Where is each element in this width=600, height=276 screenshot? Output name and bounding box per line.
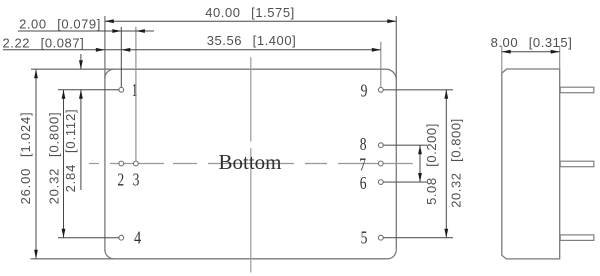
dimension 2.22 text	[3, 35, 85, 50]
svg-text:2.00 [0.079]: 2.00 [0.079]	[19, 17, 101, 32]
dimension 5.08 text	[424, 123, 439, 205]
pin label 8	[360, 134, 367, 154]
svg-text:Bottom: Bottom	[218, 150, 281, 174]
pin 6	[378, 180, 383, 185]
dimension 8.00 line	[502, 50, 560, 54]
svg-text:4: 4	[134, 228, 141, 248]
pin label 4	[134, 228, 141, 248]
svg-text:3: 3	[133, 170, 140, 190]
dimension 20.32 right line	[444, 90, 448, 238]
pin label 3	[133, 170, 140, 190]
svg-text:2.84 [0.112]: 2.84 [0.112]	[63, 109, 78, 193]
svg-text:5.08 [0.200]: 5.08 [0.200]	[424, 123, 439, 205]
side view pin middle	[560, 161, 594, 167]
dimension 2.00 text	[19, 17, 101, 32]
dimension 2.84 line	[79, 54, 83, 190]
dimension 40.00 line	[105, 19, 397, 23]
extension line pin8 row right	[383, 144, 427, 146]
svg-text:20.32 [0.800]: 20.32 [0.800]	[46, 112, 61, 205]
svg-text:8.00 [0.315]: 8.00 [0.315]	[491, 35, 573, 50]
centerline vertical	[250, 57, 252, 273]
dimension 2.00 line	[18, 29, 154, 33]
dimension 8.00 text	[491, 35, 573, 50]
dimension 20.32 left line	[62, 90, 66, 238]
extension line pin1 row left	[58, 89, 119, 91]
svg-text:8: 8	[360, 134, 367, 154]
dimension 26.00 text	[18, 112, 33, 205]
svg-text:6: 6	[360, 173, 367, 193]
dimension 5.08 line	[418, 145, 422, 182]
svg-text:35.56 [1.400]: 35.56 [1.400]	[207, 33, 297, 48]
centerline horizontal	[89, 163, 413, 165]
side view pin top	[560, 87, 594, 93]
pin 3	[134, 161, 139, 166]
dimension 20.32 left text	[46, 112, 61, 205]
extension line pin4 row left	[58, 237, 119, 239]
body outline (bottom view)	[31, 16, 397, 259]
dimension 2.22 / 35.56 line	[3, 48, 381, 52]
pin 5	[378, 235, 383, 240]
pin label 5	[361, 228, 368, 248]
pin 4	[119, 235, 124, 240]
pin label 7	[359, 154, 366, 174]
pin 9	[378, 87, 383, 92]
extension line side left	[501, 46, 503, 74]
pin 2	[119, 161, 124, 166]
pin label 6	[360, 173, 367, 193]
dimension 20.32 right text	[448, 118, 463, 208]
label Bottom	[218, 150, 281, 174]
extension line pin3 column	[135, 27, 137, 161]
side view body	[502, 69, 560, 259]
pin 7	[378, 161, 383, 166]
extension line pin9 column	[380, 42, 382, 88]
svg-text:7: 7	[359, 154, 366, 174]
svg-text:20.32 [0.800]: 20.32 [0.800]	[448, 118, 463, 208]
svg-text:2.22 [0.087]: 2.22 [0.087]	[3, 35, 85, 50]
side view pin bottom	[560, 235, 594, 241]
svg-text:40.00 [1.575]: 40.00 [1.575]	[205, 5, 295, 20]
pin label 9	[361, 81, 368, 101]
extension line pin1 column	[120, 27, 122, 88]
dimension 40.00 text	[205, 5, 295, 20]
extension line side right	[559, 46, 561, 69]
dimension 35.56 text	[207, 33, 297, 48]
pin label 2	[117, 169, 124, 189]
extension line pin5 row right	[383, 237, 453, 239]
svg-text:26.00 [1.024]: 26.00 [1.024]	[18, 112, 33, 205]
svg-text:1: 1	[132, 80, 138, 100]
pin 1	[119, 87, 124, 92]
extension line pin6 row right	[383, 181, 427, 183]
extension line pin9 row right	[383, 89, 453, 91]
dimension 26.00 line	[34, 69, 38, 259]
svg-text:9: 9	[361, 81, 368, 101]
pin 8	[378, 143, 383, 148]
svg-text:2: 2	[117, 169, 124, 189]
dimension 2.84 text	[63, 109, 78, 193]
svg-text:5: 5	[361, 228, 368, 248]
pin label 1	[132, 80, 138, 100]
